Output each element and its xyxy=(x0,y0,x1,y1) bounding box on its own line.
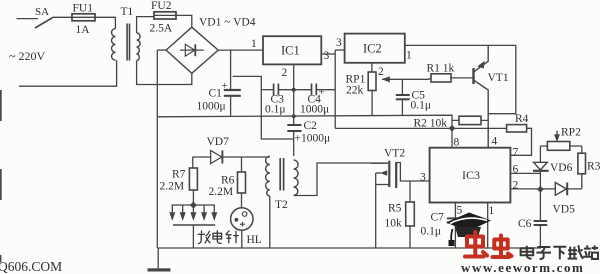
pin 6 wire xyxy=(510,172,540,174)
wire T1 secondary bottom to bridge bottom vertex xyxy=(137,61,192,85)
scan edge artifacts xyxy=(0,90,2,262)
wire bridge right vertex to IC1 xyxy=(218,49,263,51)
resistor R4 xyxy=(507,113,532,155)
resistor R3 xyxy=(578,146,600,189)
wire switch to fuse FU1 xyxy=(53,16,73,18)
wire bridge left vertex to left rail xyxy=(157,49,166,51)
resistor R6 xyxy=(209,172,246,198)
resistor R2 xyxy=(414,116,489,129)
fuse FU2 xyxy=(150,0,177,35)
wire T2 left winding bottom to bottom rail xyxy=(269,196,271,248)
node dot C2 top xyxy=(292,114,296,118)
wire T2 right winding bottom to VT2 gate xyxy=(294,163,388,196)
neon lamp HL xyxy=(231,193,262,248)
capacitor C5 xyxy=(396,79,431,115)
capacitor C6 xyxy=(518,189,547,246)
transformer T2 xyxy=(266,156,299,211)
node dot needle junction xyxy=(190,202,197,209)
wire AC top left xyxy=(17,18,38,20)
pin 8 lead xyxy=(451,128,453,147)
IC3 U3 xyxy=(430,148,511,203)
fuse FU1 xyxy=(72,2,95,36)
wire VD7 to T2 xyxy=(222,157,269,172)
capacitor C4 xyxy=(300,84,329,116)
potentiometer RP2 xyxy=(540,127,581,151)
watermark worm logo red xyxy=(465,232,512,257)
node dot pin2 junction xyxy=(537,186,544,193)
node dot R2 rail xyxy=(449,125,456,132)
rail 2 xyxy=(335,127,506,129)
svg-text:www.eeworm.com: www.eeworm.com xyxy=(461,260,584,274)
wire VD7 branch xyxy=(192,156,210,158)
capacitor C7 xyxy=(421,203,467,248)
node dot pin2 bus xyxy=(292,88,296,92)
IC2 U2 xyxy=(345,34,405,63)
IC1 U1 xyxy=(263,36,321,64)
watermark site name xyxy=(521,245,598,259)
wire node to IC2 pin3 xyxy=(335,49,344,51)
wire IC1 pin2 down xyxy=(293,64,295,115)
wire T1 secondary top to FU2 xyxy=(137,17,154,33)
ground xyxy=(148,248,171,272)
wire wiper to R1 xyxy=(402,78,431,79)
resistor R1 xyxy=(427,63,474,83)
transformer T1 xyxy=(112,6,141,61)
pin 1 lead IC3 xyxy=(487,203,489,248)
watermark graduation cap xyxy=(446,213,491,247)
transistor VT2 xyxy=(370,148,410,249)
wire AC bottom loop xyxy=(19,60,117,86)
resistor R7 xyxy=(160,157,198,205)
wire VT2 to IC3 pin3 xyxy=(410,180,430,182)
capacitor C1 xyxy=(197,50,241,116)
discharge needle array xyxy=(170,205,217,248)
capacitor C2 xyxy=(287,116,330,156)
node vertical IC outputs xyxy=(334,50,336,128)
wire FU1 to T1 xyxy=(95,17,115,28)
bottom rail xyxy=(157,247,541,249)
switch SA xyxy=(35,6,53,28)
resistor R5 xyxy=(385,181,415,248)
potentiometer RP1 xyxy=(346,63,403,116)
svg-text:Q606.COM: Q606.COM xyxy=(0,259,62,274)
wire FU2 to bridge top vertex xyxy=(176,15,192,27)
label discharge needle (drawn glyphs fang dian zhen) xyxy=(198,230,239,244)
ground rail 1 xyxy=(157,115,452,128)
pin 2 wire xyxy=(510,188,540,190)
transistor VT1 xyxy=(474,45,509,147)
wire IC1 pin3 to node xyxy=(321,53,335,55)
left rail xyxy=(156,50,158,248)
wire C1 branch to ground bus xyxy=(233,76,294,139)
diode VD7 xyxy=(207,136,230,164)
capacitor C3 xyxy=(265,84,286,116)
diode VD6 xyxy=(533,146,573,189)
wire bus right segment xyxy=(317,89,335,91)
wire bus middle segment xyxy=(279,89,311,91)
wire bus left segment xyxy=(261,89,273,91)
wire top rail from IC2 pin1 xyxy=(405,45,516,113)
bridge rectifier VD1~VD4 xyxy=(166,17,256,74)
diode VD5 xyxy=(540,183,581,216)
